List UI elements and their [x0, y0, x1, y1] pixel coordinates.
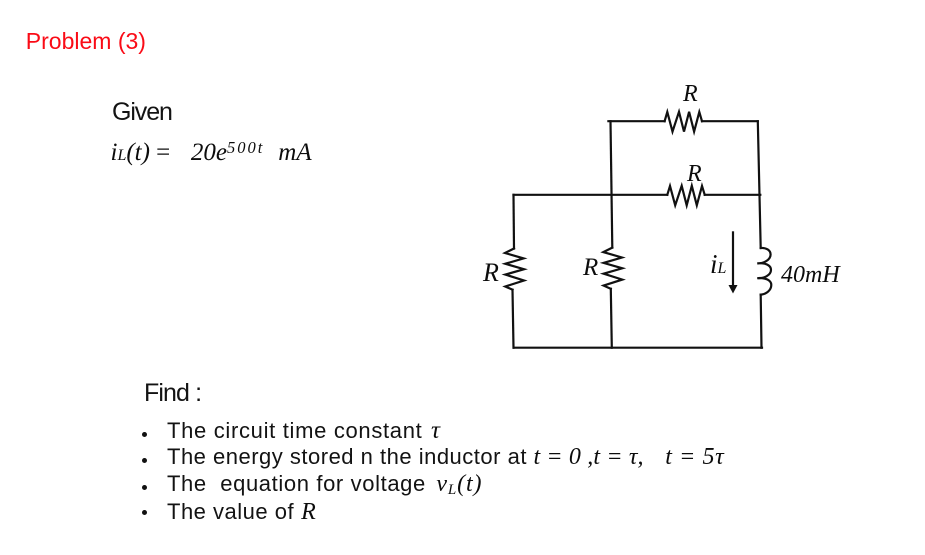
bullet line 1: [167, 418, 440, 443]
wire: top-left segment (middle branch top to R1): [608, 120, 664, 122]
wire: left branch upper: [512, 195, 515, 249]
bullet line 4: [167, 500, 316, 524]
inductor L1 (40mH coil): [757, 248, 771, 295]
wire: top-right segment (R1 to right branch): [702, 120, 758, 122]
label iL (inductor current): [710, 251, 726, 278]
wire: right branch upper: [758, 121, 761, 248]
bullet line 3: [167, 472, 482, 496]
resistor R4 (middle vertical R): [603, 248, 622, 289]
wire: bottom rail: [514, 347, 762, 349]
label R (R3, left resistor): [483, 260, 499, 286]
label R (R4, middle resistor): [583, 255, 598, 280]
bullet dot 2: [142, 458, 147, 463]
wire: second row left segment (left branch to R2): [514, 194, 668, 196]
bullet line 2: [167, 445, 724, 469]
resistor R3 (left vertical R): [505, 249, 524, 290]
resistor R1 (top horizontal R): [665, 112, 702, 132]
resistor R2 (second horizontal R): [667, 186, 704, 206]
label: Find :: [144, 381, 201, 406]
title: Problem (3): [26, 30, 146, 53]
wire: right branch lower: [760, 295, 763, 348]
circuit schematic: [460, 60, 880, 360]
bullet dot 4: [142, 510, 147, 515]
wire: middle branch vertical: [611, 121, 613, 247]
arrow: iL current direction: [732, 232, 734, 286]
equation: iL(t) = 20e^500t mA: [111, 140, 312, 165]
label R (R2, second resistor): [687, 162, 702, 186]
wire: left branch lower: [513, 290, 514, 348]
label: Given: [112, 100, 172, 125]
wire: second row right segment (R2 to right branch): [705, 194, 761, 196]
bullet dot 3: [142, 485, 147, 490]
bullet dot 1: [142, 432, 147, 437]
label R (R1, top resistor): [683, 82, 698, 106]
label 40mH (inductance value): [781, 263, 840, 287]
wire: middle branch lower: [611, 289, 612, 348]
